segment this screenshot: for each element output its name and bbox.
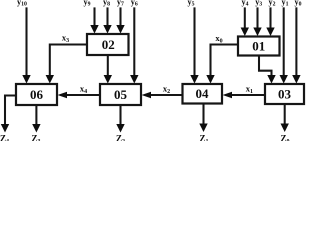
arrowhead y1 into 03 <box>280 75 288 84</box>
wire y10 <box>25 7 27 76</box>
arrowhead y8 into 02 <box>103 25 111 34</box>
svg-text:y3: y3 <box>255 0 262 8</box>
wire y0 <box>295 7 297 76</box>
wire y2 <box>269 7 271 29</box>
block 06 <box>16 84 57 105</box>
block 03 <box>265 84 304 104</box>
wire block 01 output to block 03 <box>259 56 272 77</box>
svg-text:x4: x4 <box>80 83 87 95</box>
arrowhead y4 into 01 <box>241 28 249 37</box>
arrowhead y6 into 05 <box>130 75 138 84</box>
svg-text:y8: y8 <box>103 0 110 8</box>
block 04 <box>183 84 223 104</box>
arrowhead Z0 <box>281 124 289 133</box>
svg-text:y1: y1 <box>282 0 289 8</box>
svg-text:Z3: Z3 <box>31 133 40 141</box>
arrowhead x2 into 05 <box>142 92 152 98</box>
arrowhead y2 into 01 <box>266 28 274 37</box>
arrowhead y7 into 02 <box>116 25 124 34</box>
wire y6 <box>133 7 135 76</box>
svg-text:y0: y0 <box>295 0 302 8</box>
svg-text:y10: y10 <box>17 0 27 8</box>
svg-text:04: 04 <box>196 86 210 101</box>
arrowhead Z2 <box>116 124 124 133</box>
svg-text:x2: x2 <box>163 83 170 95</box>
wire Z4 output from block 06 left <box>5 96 16 126</box>
wire y5 <box>193 7 195 76</box>
svg-text:y4: y4 <box>242 0 249 8</box>
svg-text:y7: y7 <box>117 0 124 8</box>
arrowhead Z4 <box>1 124 9 133</box>
arrowhead into 05 <box>104 75 112 84</box>
arrowhead x0 into 04 <box>206 75 214 84</box>
arrowhead Z3 <box>32 124 40 133</box>
wire x4 from block 05 to block 06 <box>66 94 100 96</box>
arrowhead y5 into 04 <box>190 75 198 84</box>
svg-text:Z1: Z1 <box>199 133 208 141</box>
wire x1 from block 03 to block 04 <box>231 94 265 96</box>
arrowhead y3 into 01 <box>253 28 261 37</box>
svg-text:Z0: Z0 <box>280 133 289 141</box>
svg-text:02: 02 <box>102 37 115 52</box>
wire Z3 output from block 06 bottom <box>35 105 37 125</box>
svg-text:y5: y5 <box>188 0 195 8</box>
wire y3 <box>256 7 258 29</box>
arrowhead y10 into 06 <box>22 75 30 84</box>
svg-text:Z2: Z2 <box>116 133 125 141</box>
svg-text:05: 05 <box>114 87 128 102</box>
svg-text:03: 03 <box>278 87 292 102</box>
svg-text:y9: y9 <box>84 0 91 8</box>
arrowhead x4 into 06 <box>58 92 68 98</box>
wire y1 <box>283 7 285 76</box>
svg-text:Z4: Z4 <box>0 133 9 141</box>
arrowhead x1 into 04 <box>223 92 233 98</box>
wire x0 from block 01 to block 04 <box>211 45 239 77</box>
block 05 <box>100 84 141 105</box>
arrowhead y0 into 03 <box>292 75 300 84</box>
wire y4 <box>244 7 246 29</box>
arrowhead Z1 <box>199 124 207 133</box>
svg-text:x1: x1 <box>246 83 253 95</box>
wire y8 <box>106 7 108 26</box>
block 01 <box>238 37 280 56</box>
wire x3 from block 02 to block 06 <box>50 45 87 77</box>
svg-text:y6: y6 <box>131 0 138 8</box>
wire Z1 output from block 04 bottom <box>202 104 204 125</box>
arrowhead y9 into 02 <box>90 25 98 34</box>
wire Z0 output from block 03 bottom <box>284 104 286 125</box>
svg-text:x3: x3 <box>62 32 69 44</box>
wire x2 from block 04 to block 05 <box>150 94 183 96</box>
block 02 <box>87 34 129 55</box>
arrowhead x3 into 06 <box>46 75 54 84</box>
svg-text:y2: y2 <box>269 0 276 8</box>
wire y9 <box>93 7 95 26</box>
arrowhead into 03 <box>267 75 275 84</box>
wire Z2 output from block 05 bottom <box>119 105 121 125</box>
svg-text:01: 01 <box>252 39 265 54</box>
wire block 02 output to block 05 <box>107 55 109 77</box>
svg-text:x0: x0 <box>215 33 222 45</box>
svg-text:06: 06 <box>30 87 44 102</box>
wire y7 <box>119 7 121 26</box>
